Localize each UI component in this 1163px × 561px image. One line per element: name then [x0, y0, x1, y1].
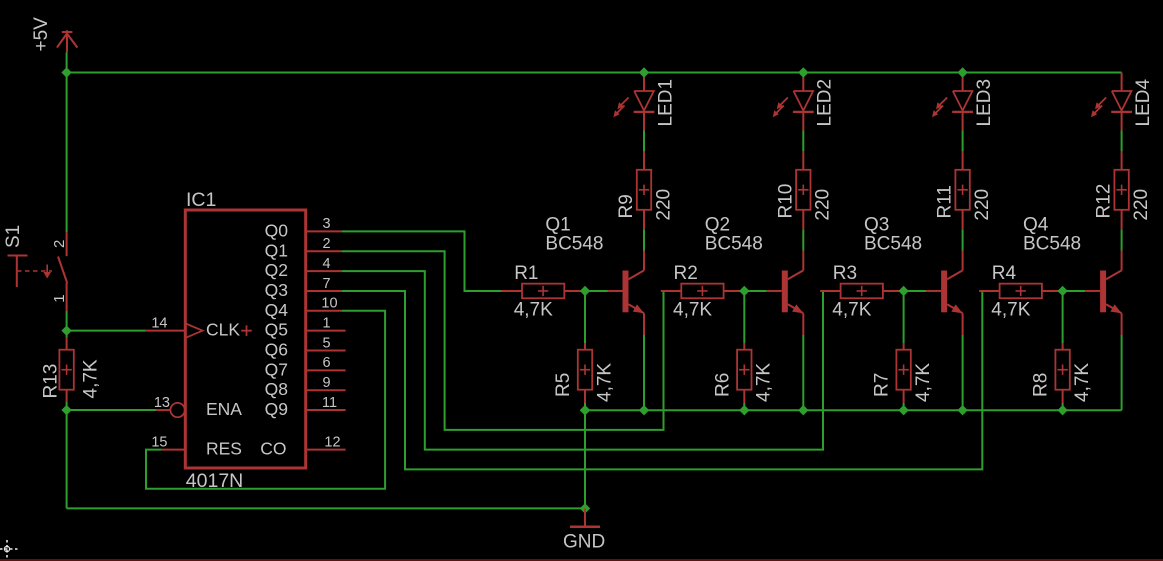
wire Q4 emitter to ground rail	[1121, 335, 1123, 410]
sheet bottom frame line	[0, 559, 1163, 561]
junction base node 4	[1057, 286, 1067, 296]
resistor R11 220	[935, 151, 993, 230]
pin Q4 10	[265, 296, 342, 320]
svg-text:Q0: Q0	[265, 220, 289, 240]
svg-text:Q3: Q3	[265, 280, 288, 300]
svg-text:R13: R13	[41, 364, 62, 399]
wire R7 to ground rail	[903, 403, 905, 410]
junction +5V feed	[61, 67, 71, 77]
wire Q2 net to R3	[342, 271, 825, 450]
svg-text:BC548: BC548	[1023, 234, 1081, 255]
svg-text:R4: R4	[992, 263, 1017, 284]
svg-text:220: 220	[1131, 189, 1152, 221]
wire Q3 emitter to ground rail	[962, 335, 964, 410]
junction R6 ground	[739, 405, 749, 415]
wire LED1 to R9	[643, 131, 645, 152]
svg-text:Q6: Q6	[265, 340, 288, 360]
pin ENA 13	[154, 395, 242, 419]
wire base node 2 down	[743, 291, 745, 343]
svg-text:2: 2	[322, 236, 330, 252]
pin Q2 4	[265, 256, 342, 280]
wire base node to Q4	[1063, 290, 1086, 292]
transistor Q3 BC548	[864, 215, 963, 336]
wire Q4 net to RES	[146, 311, 385, 489]
pin Q1 2	[265, 236, 342, 260]
wire +5V top rail	[67, 72, 1122, 74]
junction emitter Q3 ground	[957, 405, 967, 415]
svg-text:Q4: Q4	[1023, 215, 1049, 236]
wire collector 3	[962, 230, 964, 251]
wire base node to Q2	[744, 290, 767, 292]
svg-text:R11: R11	[935, 185, 956, 218]
junction R5 ground	[580, 405, 590, 415]
wire R5 to ground rail	[584, 403, 586, 410]
svg-text:12: 12	[324, 434, 340, 450]
LED LED1	[613, 73, 676, 131]
wire Q3 net to R4	[342, 291, 984, 469]
svg-text:R6: R6	[712, 373, 733, 397]
svg-text:BC548: BC548	[864, 234, 922, 255]
wire Q2 emitter to ground rail	[802, 335, 804, 410]
svg-text:2: 2	[51, 240, 68, 248]
LED LED4	[1091, 73, 1154, 131]
resistor R5 4,7K	[553, 343, 615, 403]
wire S1 to R13	[66, 311, 68, 338]
power +5V supply symbol P1	[31, 17, 78, 52]
svg-text:ENA: ENA	[206, 399, 242, 419]
LED LED3	[932, 73, 995, 131]
svg-text:R9: R9	[616, 194, 637, 218]
pin CLK 14	[146, 315, 252, 339]
pin Q8 9	[265, 375, 346, 399]
junction LED2 rail	[798, 67, 808, 77]
junction ENA tap	[61, 405, 71, 415]
resistor R2 4,7K	[661, 263, 745, 321]
svg-text:4,7K: 4,7K	[81, 359, 102, 398]
pin Q0 3	[265, 216, 342, 240]
transistor Q1 BC548	[545, 215, 644, 336]
svg-text:1: 1	[322, 315, 330, 331]
svg-text:13: 13	[154, 395, 170, 411]
resistor R3 4,7K	[820, 263, 904, 321]
svg-text:10: 10	[321, 296, 337, 312]
svg-text:15: 15	[151, 434, 167, 450]
junction base node 1	[580, 286, 590, 296]
svg-text:Q9: Q9	[265, 399, 288, 419]
transistor Q2 BC548	[705, 215, 804, 336]
svg-text:Q1: Q1	[545, 215, 570, 236]
LED LED2	[773, 73, 836, 131]
svg-text:Q1: Q1	[265, 240, 288, 260]
svg-text:4,7K: 4,7K	[913, 363, 934, 402]
wire LED4 to R12	[1121, 131, 1123, 152]
svg-text:LED2: LED2	[815, 79, 836, 127]
wire collector 4	[1121, 230, 1123, 251]
junction base node 2	[739, 286, 749, 296]
wire base node 3 down	[903, 291, 905, 343]
junction CLK tap	[61, 325, 71, 335]
svg-text:BC548: BC548	[545, 234, 603, 255]
svg-text:CO: CO	[260, 439, 286, 459]
svg-text:4,7K: 4,7K	[754, 363, 775, 402]
svg-text:Q8: Q8	[265, 379, 288, 399]
wire Q0 net to R1	[342, 231, 508, 291]
svg-text:4,7K: 4,7K	[673, 299, 712, 320]
svg-text:Q5: Q5	[265, 320, 288, 340]
wire R13 bottom	[66, 402, 68, 508]
svg-text:220: 220	[813, 189, 834, 221]
junction emitter Q1 ground	[639, 405, 649, 415]
svg-text:4,7K: 4,7K	[514, 299, 553, 320]
wire Q1 emitter to ground rail	[643, 335, 645, 410]
wire LED3 to R11	[962, 131, 964, 152]
svg-text:4,7K: 4,7K	[991, 299, 1030, 320]
svg-text:Q2: Q2	[265, 260, 288, 280]
svg-text:220: 220	[653, 189, 674, 221]
svg-text:4,7K: 4,7K	[832, 299, 871, 320]
svg-text:CLK: CLK	[206, 320, 240, 340]
pin RES 15	[151, 434, 242, 458]
svg-text:LED3: LED3	[974, 79, 995, 127]
resistor R13 4,7K	[41, 338, 102, 402]
pin CO 12	[260, 434, 345, 458]
junction R7 ground	[898, 405, 908, 415]
resistor R9 220	[616, 151, 674, 230]
wire base node 1 down	[584, 291, 586, 343]
svg-text:R1: R1	[514, 263, 538, 284]
wire base node to Q3	[904, 290, 927, 292]
svg-text:11: 11	[322, 395, 337, 411]
svg-text:LED1: LED1	[655, 79, 676, 127]
junction ground drop top	[580, 405, 590, 415]
wire +5V vertical feed	[66, 52, 68, 232]
pin Q7 6	[265, 355, 346, 379]
resistor R4 4,7K	[979, 263, 1063, 321]
wire ground return bottom	[67, 507, 585, 509]
svg-text:4: 4	[322, 256, 330, 272]
svg-text:R2: R2	[674, 263, 698, 284]
resistor R8 4,7K	[1031, 343, 1093, 403]
svg-text:RES: RES	[206, 439, 242, 459]
svg-text:4,7K: 4,7K	[594, 363, 615, 402]
switch S1	[3, 225, 68, 311]
svg-text:GND: GND	[563, 532, 605, 553]
junction base node 3	[898, 286, 908, 296]
resistor R6 4,7K	[712, 343, 774, 403]
svg-text:R5: R5	[553, 373, 574, 397]
junction emitter Q2 ground	[798, 405, 808, 415]
ground GND symbol	[563, 508, 605, 552]
svg-text:220: 220	[972, 189, 993, 221]
wire R6 to ground rail	[743, 403, 745, 410]
svg-text:IC1: IC1	[186, 189, 216, 211]
pin Q9 11	[265, 395, 346, 419]
svg-text:+5V: +5V	[31, 17, 52, 52]
wire CLK net	[67, 330, 146, 332]
svg-text:Q7: Q7	[265, 359, 288, 379]
wire R8 to ground rail	[1062, 403, 1064, 410]
junction LED3 rail	[957, 67, 967, 77]
svg-text:R8: R8	[1031, 373, 1052, 397]
wire collector 1	[643, 230, 645, 251]
junction ground drop bottom	[580, 503, 590, 513]
svg-text:S1: S1	[3, 225, 24, 248]
svg-text:1: 1	[51, 294, 68, 302]
svg-text:Q4: Q4	[265, 300, 289, 320]
wire base node to Q1	[585, 290, 608, 292]
wire collector 2	[802, 230, 804, 251]
wire ground drop	[584, 410, 586, 508]
wire ENA net	[67, 409, 156, 411]
resistor R12 220	[1094, 151, 1152, 230]
svg-text:Q3: Q3	[864, 215, 889, 236]
IC IC1 4017N decade counter	[185, 189, 305, 492]
sheet origin mark	[0, 540, 19, 561]
svg-text:5: 5	[322, 335, 330, 351]
svg-text:6: 6	[322, 355, 330, 371]
junction R8 ground	[1057, 405, 1067, 415]
wire LED2 to R10	[802, 131, 804, 152]
svg-text:R12: R12	[1094, 184, 1115, 219]
wire base node 4 down	[1062, 291, 1064, 343]
svg-text:9: 9	[322, 375, 330, 391]
svg-text:3: 3	[322, 216, 330, 232]
svg-text:4,7K: 4,7K	[1072, 363, 1093, 402]
svg-text:R10: R10	[775, 184, 796, 219]
resistor R10 220	[775, 151, 833, 230]
resistor R7 4,7K	[872, 343, 934, 403]
svg-text:LED4: LED4	[1133, 79, 1154, 127]
wire ground rail	[585, 409, 1122, 411]
svg-text:R7: R7	[872, 373, 893, 397]
junction LED1 rail	[639, 67, 649, 77]
wire Q1 net to R2	[342, 251, 666, 430]
svg-text:R3: R3	[833, 263, 857, 284]
pin Q6 5	[265, 335, 346, 359]
svg-text:7: 7	[322, 276, 330, 292]
transistor Q4 BC548	[1023, 215, 1122, 336]
svg-text:BC548: BC548	[705, 234, 763, 255]
resistor R1 4,7K	[502, 263, 586, 321]
pin Q3 7	[265, 276, 342, 300]
pin Q5 1	[265, 315, 346, 339]
svg-text:14: 14	[151, 315, 167, 331]
svg-text:Q2: Q2	[705, 215, 730, 236]
